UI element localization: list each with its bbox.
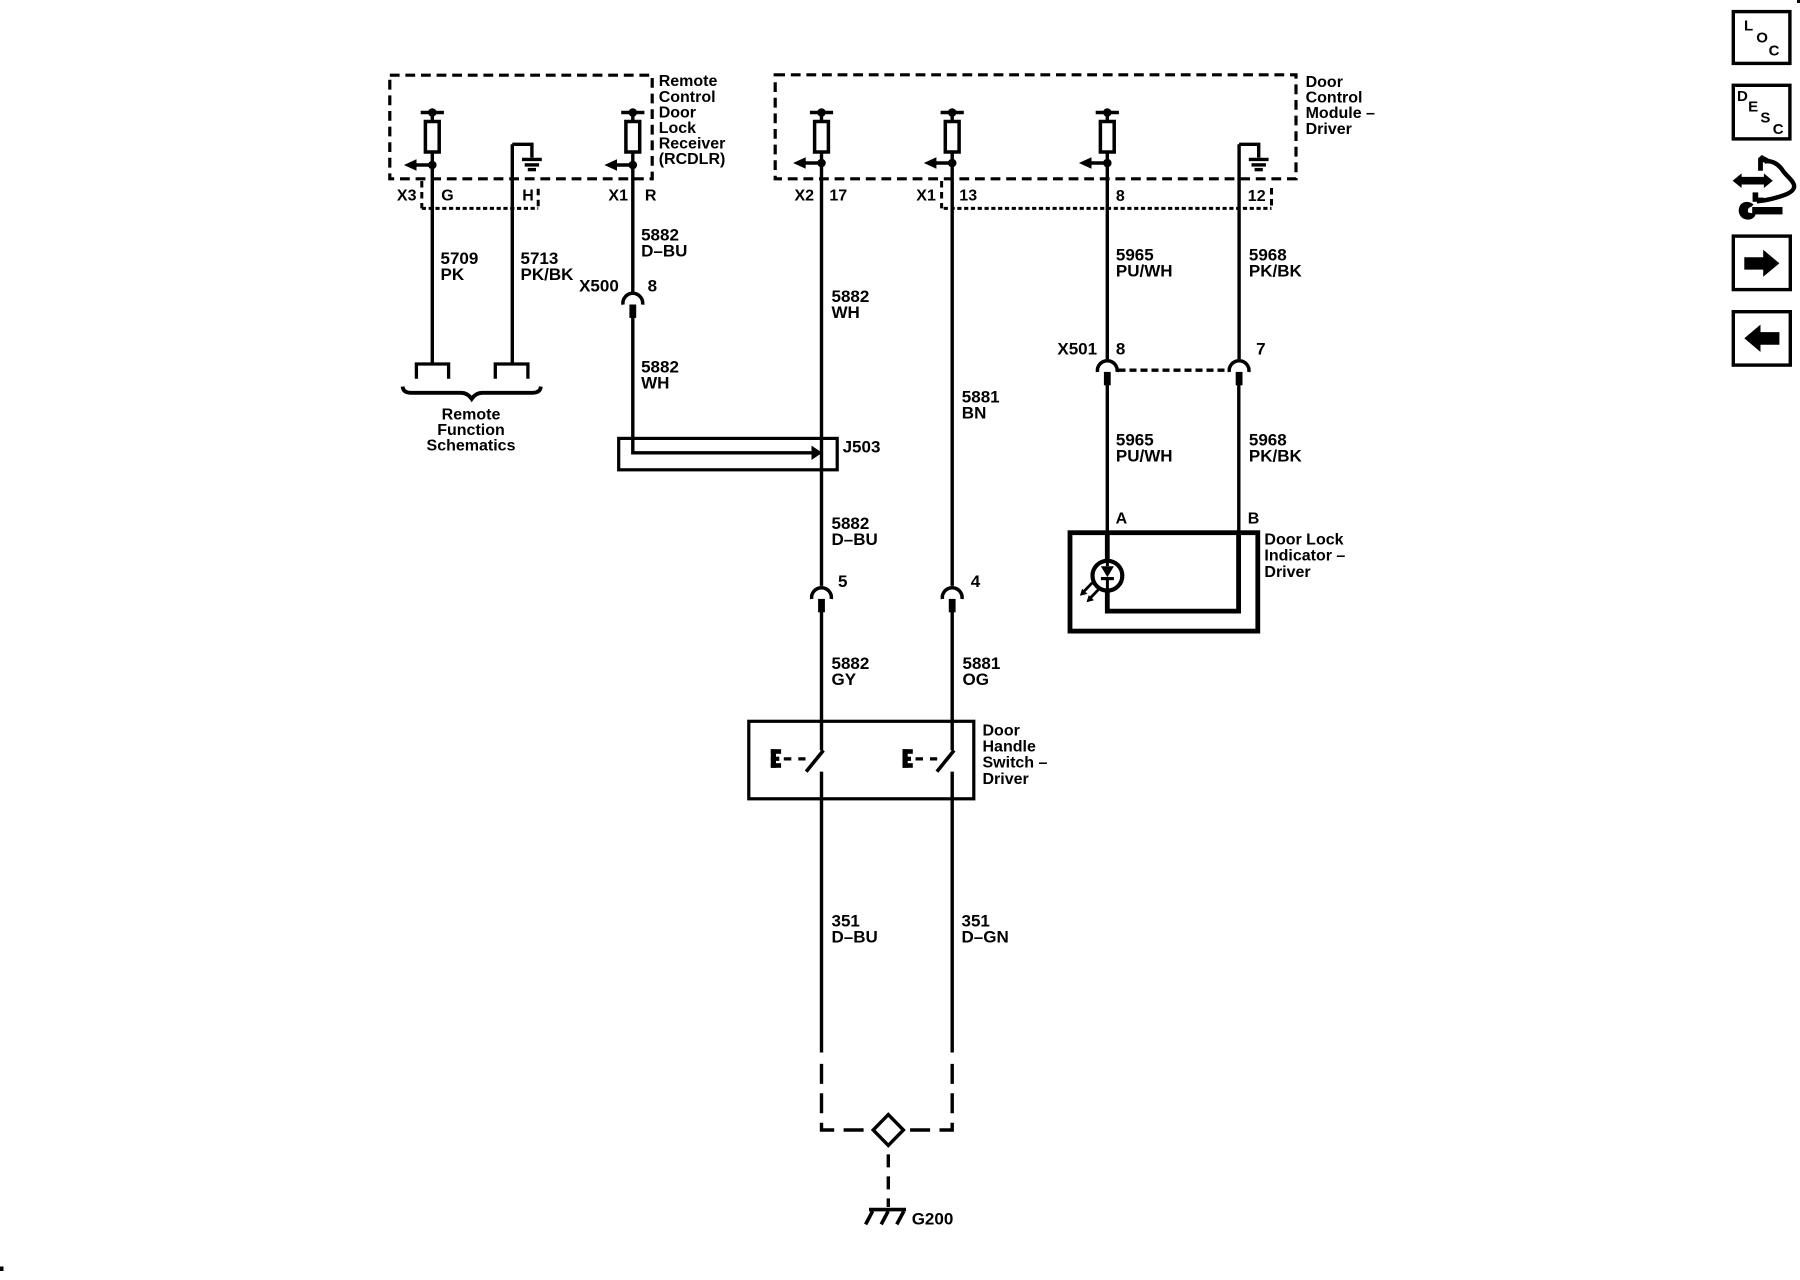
connector strip X3 of RCDLR (422, 181, 538, 208)
svg-text:Handle: Handle (983, 739, 1036, 756)
svg-text:C: C (1773, 121, 1784, 138)
svg-text:Schematics: Schematics (427, 438, 516, 455)
dashed wire to ground G200 (887, 1145, 890, 1207)
switch 1 (lock) inside door handle switch (771, 721, 824, 771)
page corner mark bottom-left (0, 1267, 4, 1272)
svg-text:X3: X3 (397, 187, 417, 204)
component box: Door Handle Switch - Driver (749, 721, 974, 799)
svg-text:C: C (1769, 42, 1780, 59)
svg-text:Door Lock: Door Lock (1264, 531, 1343, 548)
resistor in DCM at pin X2-17 (793, 108, 833, 169)
sidebar icon: DESC button (1733, 85, 1790, 139)
wire: circuit 5965 PU/WH from DCM pin 8 (1106, 163, 1109, 359)
splice pack J503 (619, 438, 838, 469)
svg-text:PK: PK (441, 265, 465, 284)
LED indicator lamp internal circuit (1093, 533, 1239, 611)
svg-text:D: D (1737, 88, 1748, 105)
label: Door Lock Indicator - Driver (1264, 531, 1345, 581)
wire: circuit 5881 BN from DCM pin X1-13 (951, 163, 954, 586)
ground symbol in DCM at pin 12 (1239, 144, 1269, 169)
resistor in DCM at pin 8 (1079, 108, 1119, 169)
svg-text:Driver: Driver (1306, 121, 1352, 138)
svg-text:Lock: Lock (659, 120, 696, 137)
component box: Door Lock Indicator - Driver (1070, 533, 1258, 631)
svg-text:Driver: Driver (1264, 564, 1310, 581)
splice diamond node (873, 1115, 903, 1146)
sidebar icon: jump-to-wiring (double arrow and wrench) (1733, 155, 1795, 220)
svg-text:PU/WH: PU/WH (1116, 446, 1173, 465)
svg-text:5: 5 (838, 572, 847, 591)
inline connector pin 5 (door handle switch) (812, 572, 848, 613)
svg-text:(RCDLR): (RCDLR) (659, 151, 726, 168)
svg-text:PK/BK: PK/BK (1249, 446, 1303, 465)
svg-text:Remote: Remote (442, 406, 501, 423)
svg-text:PU/WH: PU/WH (1116, 261, 1173, 280)
LED diode symbol (1101, 561, 1114, 591)
resistor in RCDLR at pin G (404, 108, 444, 171)
svg-text:D–BU: D–BU (832, 928, 878, 947)
off-page connector bracket (wire H) (495, 364, 528, 379)
svg-text:4: 4 (971, 572, 981, 591)
wire: circuit 5968 PK/BK from X501-7 to indicator pin B (1237, 385, 1240, 533)
wire: circuit 351 D-GN below switch (951, 772, 954, 1053)
svg-text:PK/BK: PK/BK (521, 265, 575, 284)
svg-text:Function: Function (437, 422, 505, 439)
svg-text:R: R (645, 187, 657, 204)
svg-text:Door: Door (1306, 74, 1343, 91)
wire: circuit 5965 PU/WH from X501-8 to indicator pin A (1106, 385, 1109, 533)
svg-text:WH: WH (832, 303, 860, 322)
inline connector X501 pin 8 (1057, 340, 1125, 386)
connector strip X1 of DCM (942, 181, 1272, 208)
svg-text:X1: X1 (608, 187, 628, 204)
svg-text:A: A (1116, 511, 1128, 528)
svg-text:Door: Door (983, 723, 1020, 740)
svg-text:Receiver: Receiver (659, 136, 726, 153)
resistor in DCM at pin X1-13 (924, 108, 964, 169)
svg-text:Module –: Module – (1306, 105, 1375, 122)
svg-text:O: O (1756, 29, 1768, 46)
svg-text:OG: OG (963, 670, 989, 689)
svg-text:7: 7 (1256, 340, 1265, 359)
svg-text:Switch –: Switch – (983, 755, 1048, 772)
svg-text:B: B (1248, 511, 1260, 528)
wire: circuit 5713 PK/BK from RCDLR pin H (511, 144, 514, 362)
wire: circuit 5882 GY to door handle switch (820, 612, 823, 721)
label: RCDLR module name (659, 73, 726, 168)
svg-text:WH: WH (641, 374, 669, 393)
label: Remote Function Schematics (427, 406, 516, 454)
svg-text:13: 13 (959, 187, 977, 204)
svg-text:H: H (522, 187, 534, 204)
label: Door Control Module name (1306, 74, 1375, 138)
svg-text:E: E (1748, 99, 1758, 116)
svg-text:X1: X1 (916, 187, 936, 204)
inline connector pin 4 (door handle switch) (942, 572, 980, 613)
svg-text:D–BU: D–BU (832, 530, 878, 549)
svg-text:8: 8 (1116, 188, 1125, 205)
svg-text:J503: J503 (843, 438, 881, 457)
svg-text:Remote: Remote (659, 73, 718, 90)
page corner mark top-right (1797, 0, 1800, 3)
sidebar icon: LOC button (1733, 12, 1790, 64)
svg-text:Driver: Driver (983, 771, 1029, 788)
switch 2 (unlock) inside door handle switch (903, 721, 955, 771)
brace grouping to Remote Function Schematics (403, 387, 541, 399)
inline connector X501 pin 7 (1229, 340, 1265, 386)
resistor in RCDLR at pin R (604, 108, 644, 171)
dashed wire segment to splice (right) (904, 1064, 953, 1130)
wire: circuit 5968 PK/BK from DCM pin 12 (1237, 144, 1240, 359)
svg-text:8: 8 (648, 277, 657, 296)
svg-text:BN: BN (962, 403, 987, 422)
label: Door Handle Switch - Driver (983, 723, 1048, 788)
wire: circuit 351 D-BU below switch (820, 772, 823, 1053)
svg-text:S: S (1760, 110, 1770, 127)
svg-text:GY: GY (832, 670, 857, 689)
wire: circuit 5882 WH from DCM pin X2-17 (820, 163, 823, 586)
svg-text:G: G (441, 187, 453, 204)
dashed wire segment to splice (left) (822, 1064, 874, 1130)
svg-text:PK/BK: PK/BK (1249, 261, 1303, 280)
svg-text:17: 17 (829, 187, 847, 204)
sidebar icon: next page button (1733, 236, 1790, 290)
ground symbol in RCDLR at pin H (512, 144, 542, 169)
wire: circuit 5882 D-BU from RCDLR pin R (631, 165, 634, 292)
sidebar icon: previous page button (1733, 312, 1790, 365)
svg-text:G200: G200 (912, 1209, 954, 1228)
svg-text:Control: Control (1306, 90, 1363, 107)
svg-text:Indicator –: Indicator – (1264, 548, 1345, 565)
svg-text:X2: X2 (795, 187, 815, 204)
svg-text:X500: X500 (579, 277, 619, 296)
svg-text:8: 8 (1116, 340, 1125, 359)
svg-text:Door: Door (659, 104, 696, 121)
svg-text:D–GN: D–GN (962, 928, 1009, 947)
chassis ground symbol G200 (866, 1210, 906, 1225)
svg-text:Control: Control (659, 89, 716, 106)
svg-text:X501: X501 (1057, 340, 1097, 359)
off-page connector bracket (wire G) (416, 364, 448, 379)
dashed connector line X501 between pins 8 and 7 (1119, 369, 1228, 372)
inline connector X500 pin 8 (579, 277, 657, 318)
wire: circuit 5709 PK from RCDLR pin G (431, 165, 434, 363)
wire: circuit 5882 WH from X500 to J503 (631, 317, 634, 438)
svg-text:12: 12 (1248, 188, 1266, 205)
svg-text:L: L (1744, 18, 1753, 35)
module box: Door Control Module - Driver (775, 75, 1296, 179)
module box: Remote Control Door Lock Receiver (RCDLR) (390, 75, 652, 179)
LED light emission arrows (1080, 583, 1099, 602)
wire: circuit 5881 OG to door handle switch (951, 612, 954, 721)
svg-text:D–BU: D–BU (641, 242, 687, 261)
